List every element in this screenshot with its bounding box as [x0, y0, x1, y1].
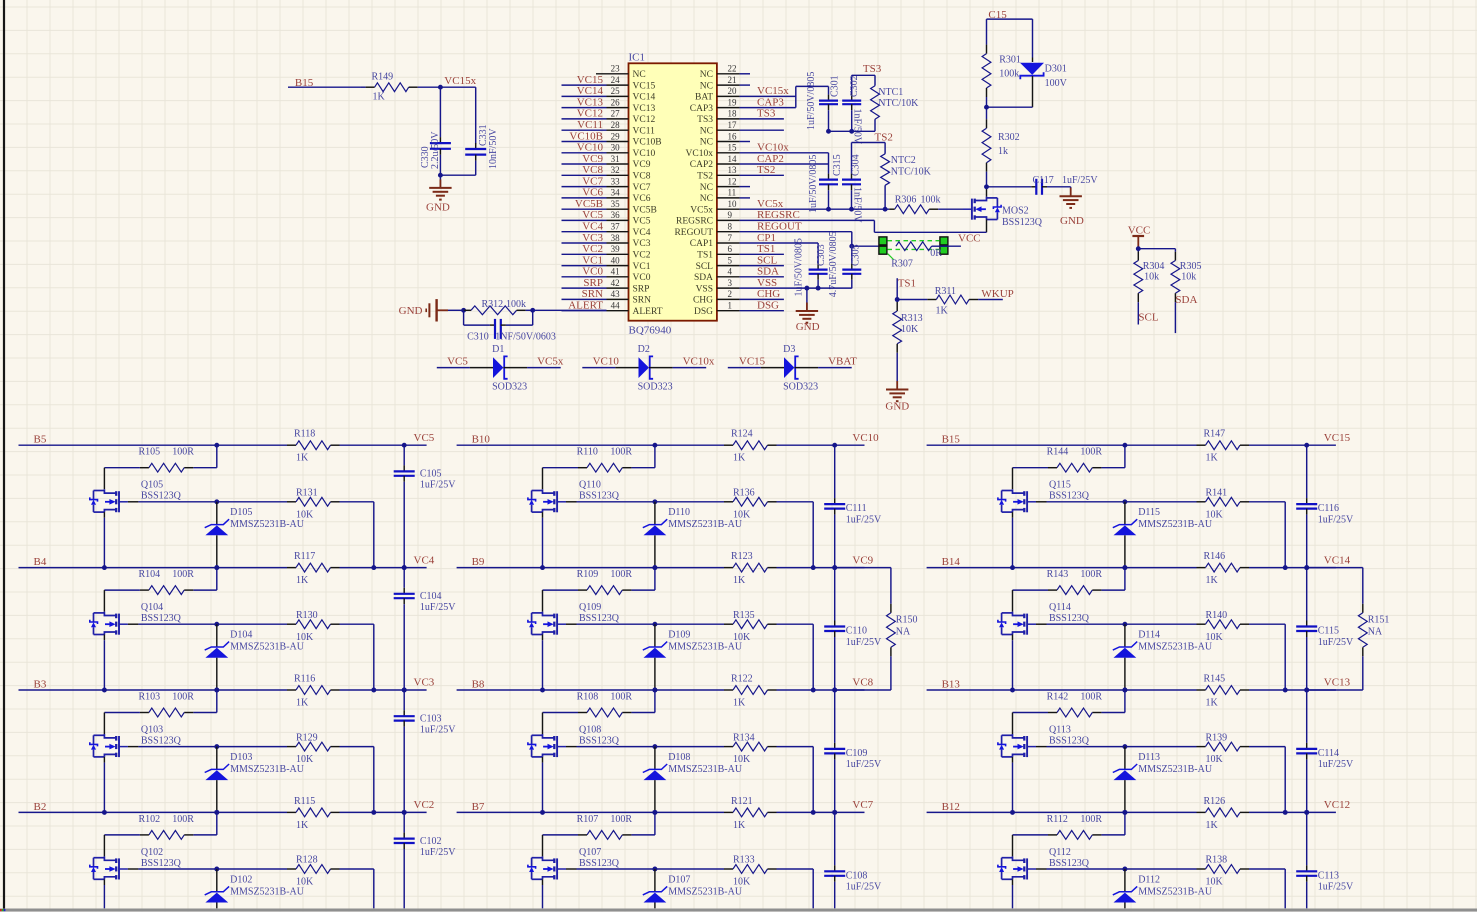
svg-text:100R: 100R — [610, 691, 632, 702]
svg-text:C104: C104 — [420, 591, 442, 602]
svg-text:R151: R151 — [1368, 615, 1390, 626]
svg-text:1K: 1K — [1206, 698, 1219, 709]
resistor R109 100R — [654, 568, 656, 591]
svg-text:R304: R304 — [1143, 261, 1165, 272]
wire drain Q107 — [542, 835, 544, 857]
IC U1 body — [629, 63, 717, 320]
svg-text:100V: 100V — [1045, 78, 1068, 89]
svg-text:26: 26 — [611, 97, 621, 107]
wire gate Q104 — [128, 623, 138, 625]
svg-text:BSS123Q: BSS123Q — [579, 613, 620, 624]
svg-text:R103: R103 — [139, 691, 161, 702]
capacitor C304 — [851, 143, 853, 174]
wire rail B13 — [927, 689, 1197, 691]
svg-text:Q102: Q102 — [141, 847, 163, 858]
svg-text:SCL: SCL — [1138, 311, 1158, 323]
svg-text:43: 43 — [611, 289, 621, 299]
transistor Q115 BSS123Q — [1013, 489, 1025, 493]
svg-text:6: 6 — [728, 244, 733, 254]
svg-text:NC: NC — [700, 138, 713, 148]
svg-text:R150: R150 — [896, 615, 918, 626]
svg-text:C109: C109 — [846, 748, 868, 759]
svg-text:C305: C305 — [851, 244, 862, 266]
wire REGOUT — [740, 231, 852, 233]
svg-text:10k: 10k — [1181, 272, 1196, 283]
ground GND4 — [806, 288, 808, 311]
IC1 pin 44 ALERT — [607, 310, 629, 312]
svg-text:VC10B: VC10B — [569, 130, 603, 142]
svg-text:B4: B4 — [34, 556, 47, 568]
zener D107 MMSZ5231B-AU — [654, 869, 656, 892]
svg-text:C115: C115 — [1318, 626, 1339, 637]
svg-text:VC8: VC8 — [852, 677, 873, 689]
wire ALERT — [533, 309, 607, 311]
svg-text:1k: 1k — [998, 146, 1008, 157]
IC1 pin 40 VC1 — [607, 265, 629, 267]
svg-text:C310: C310 — [467, 331, 489, 342]
svg-text:22: 22 — [728, 64, 737, 74]
svg-text:VC11: VC11 — [577, 119, 603, 131]
svg-text:VC2: VC2 — [414, 799, 435, 811]
wire source Q103 — [103, 757, 105, 763]
IC1 pin 35 VC5B — [607, 208, 629, 210]
svg-text:1uF/25V: 1uF/25V — [1318, 759, 1354, 770]
svg-text:VC9: VC9 — [852, 554, 873, 566]
svg-text:1uF/25V: 1uF/25V — [846, 759, 882, 770]
svg-text:B2: B2 — [34, 801, 47, 813]
IC1 pin 22 NC — [717, 73, 740, 75]
capacitor C115 1uF/25V — [1306, 568, 1308, 621]
svg-text:BSS123Q: BSS123Q — [141, 736, 182, 747]
svg-text:NC: NC — [700, 81, 713, 91]
svg-text:1uF/50V/0805: 1uF/50V/0805 — [806, 72, 817, 130]
thermistor NTC1 — [871, 86, 880, 120]
svg-text:Q105: Q105 — [141, 480, 163, 491]
IC1 pin 3 VSS — [717, 287, 740, 289]
svg-text:VC2: VC2 — [582, 243, 603, 255]
wire rail B5 — [19, 444, 288, 446]
svg-text:BSS123Q: BSS123Q — [1049, 858, 1090, 869]
svg-text:1K: 1K — [1206, 820, 1219, 831]
svg-text:R130: R130 — [296, 610, 318, 621]
wire gate Q102 — [128, 868, 138, 870]
IC1 pin 7 CAP1 — [717, 242, 740, 244]
IC1 pin 21 NC — [717, 84, 740, 86]
wire rail B14 — [927, 567, 1197, 569]
svg-text:BQ76940: BQ76940 — [629, 325, 672, 337]
resistor R150 NA — [835, 567, 891, 569]
IC1 pin 18 TS3 — [717, 118, 740, 120]
resistor R149 — [361, 86, 366, 88]
svg-text:D112: D112 — [1138, 874, 1160, 885]
IC1 pin 5 SCL — [717, 265, 740, 267]
IC1 pin 28 VC11 — [607, 129, 629, 131]
transistor Q110 BSS123Q — [543, 489, 555, 493]
transistor Q113 BSS123Q — [1013, 734, 1025, 738]
svg-text:C303: C303 — [816, 244, 827, 266]
svg-text:31: 31 — [611, 154, 620, 164]
svg-text:VC4: VC4 — [633, 228, 651, 238]
svg-text:VC5B: VC5B — [633, 205, 657, 215]
svg-text:C302: C302 — [849, 75, 860, 97]
svg-text:R112: R112 — [1047, 814, 1068, 825]
svg-text:1K: 1K — [733, 820, 746, 831]
IC1 pin 39 VC2 — [607, 253, 629, 255]
svg-text:VC15x: VC15x — [757, 85, 789, 97]
svg-text:1uF/25V: 1uF/25V — [420, 480, 456, 491]
svg-text:1nF/50V: 1nF/50V — [852, 109, 863, 145]
svg-text:R122: R122 — [731, 674, 753, 685]
svg-text:10nF/50V: 10nF/50V — [488, 128, 499, 169]
svg-text:SCL: SCL — [696, 262, 714, 272]
svg-text:Q110: Q110 — [579, 480, 601, 491]
svg-text:NTC/10K: NTC/10K — [878, 98, 919, 109]
IC1 pin 8 REGOUT — [717, 231, 740, 233]
svg-text:NC: NC — [700, 126, 713, 136]
svg-text:8: 8 — [728, 222, 733, 232]
svg-text:TS2: TS2 — [697, 172, 713, 182]
ground GND5 — [896, 381, 898, 390]
svg-text:1: 1 — [728, 301, 733, 311]
IC1 pin 20 BAT — [717, 95, 740, 97]
svg-text:MMSZ5231B-AU: MMSZ5231B-AU — [668, 764, 743, 775]
svg-text:B7: B7 — [472, 801, 485, 813]
IC1 pin 30 VC10 — [607, 152, 629, 154]
svg-text:TS1: TS1 — [697, 251, 713, 261]
svg-text:BSS123Q: BSS123Q — [579, 736, 620, 747]
svg-text:19: 19 — [728, 97, 738, 107]
svg-text:CAP3: CAP3 — [690, 104, 713, 114]
svg-text:R139: R139 — [1206, 732, 1228, 743]
svg-text:4: 4 — [728, 267, 733, 277]
capacitor C103 1uF/25V — [403, 690, 405, 710]
svg-text:VC9: VC9 — [582, 153, 603, 165]
svg-text:B5: B5 — [34, 434, 47, 446]
svg-text:20: 20 — [728, 86, 738, 96]
svg-text:SDA: SDA — [1175, 294, 1197, 306]
resistor R108 100R — [654, 690, 656, 713]
svg-text:R129: R129 — [296, 732, 318, 743]
svg-text:23: 23 — [611, 64, 621, 74]
capacitor C117 — [987, 186, 1032, 188]
svg-text:GND: GND — [1060, 215, 1084, 227]
svg-text:GND: GND — [885, 401, 909, 413]
IC1 pin 36 VC5 — [607, 219, 629, 221]
svg-text:BSS123Q: BSS123Q — [579, 491, 620, 502]
svg-text:1uF/25V: 1uF/25V — [1318, 637, 1354, 648]
svg-text:35: 35 — [611, 199, 621, 209]
svg-text:100R: 100R — [172, 691, 194, 702]
svg-text:VC10x: VC10x — [757, 142, 789, 154]
svg-text:C113: C113 — [1318, 870, 1339, 881]
svg-text:1K: 1K — [296, 698, 309, 709]
capacitor C303 — [817, 263, 819, 265]
svg-text:C114: C114 — [1318, 748, 1339, 759]
wire gate Q108 — [566, 746, 577, 748]
svg-text:GND: GND — [399, 305, 423, 317]
svg-text:VC2: VC2 — [633, 251, 651, 261]
svg-text:VCC: VCC — [1128, 225, 1151, 237]
resistor R305 — [1174, 252, 1176, 261]
svg-text:VC10x: VC10x — [686, 149, 714, 159]
svg-text:B14: B14 — [942, 556, 961, 568]
wire rail B3 — [19, 689, 288, 691]
IC1 pin 16 NC — [717, 141, 740, 143]
svg-text:100R: 100R — [1080, 569, 1102, 580]
svg-text:C301: C301 — [830, 75, 841, 97]
svg-text:BAT: BAT — [695, 93, 713, 103]
svg-text:VC3: VC3 — [582, 232, 603, 244]
IC1 pin 4 SDA — [717, 276, 740, 278]
resistor R105 100R — [216, 445, 218, 468]
svg-text:C110: C110 — [846, 626, 867, 637]
svg-text:TS1: TS1 — [757, 243, 775, 255]
svg-text:NC: NC — [700, 194, 713, 204]
wire drain Q114 — [1012, 590, 1014, 612]
svg-text:VCC: VCC — [958, 233, 981, 245]
svg-text:VC4: VC4 — [414, 554, 435, 566]
ground GND3 — [1070, 187, 1072, 196]
resistor R306 — [889, 208, 895, 210]
svg-text:GND: GND — [796, 321, 820, 333]
svg-text:VC3: VC3 — [414, 677, 435, 689]
svg-text:33: 33 — [611, 176, 621, 186]
IC1 pin 11 NC — [717, 197, 740, 199]
svg-text:IC1: IC1 — [629, 52, 646, 64]
IC1 pin 31 VC9 — [607, 163, 629, 165]
svg-text:SRP: SRP — [633, 284, 650, 294]
svg-text:DSG: DSG — [694, 307, 713, 317]
wire rail B9 — [457, 567, 724, 569]
wire CP1 — [740, 242, 819, 244]
svg-text:VC5x: VC5x — [757, 198, 784, 210]
wire VC10x-CAP2 — [740, 152, 829, 154]
svg-text:R108: R108 — [577, 691, 599, 702]
svg-text:1uF/25V: 1uF/25V — [420, 725, 456, 736]
transistor Q112 BSS123Q — [1013, 856, 1025, 860]
wire source Q102 — [103, 879, 105, 885]
zener D115 MMSZ5231B-AU — [1124, 502, 1126, 525]
capacitor C108 1uF/25V — [834, 812, 836, 865]
wire rail B12 — [927, 811, 1197, 813]
wire drain Q110 — [542, 468, 544, 490]
junction A1 — [461, 308, 466, 313]
svg-text:R118: R118 — [294, 429, 315, 440]
svg-text:D3: D3 — [783, 344, 795, 355]
wire gate Q107 — [566, 868, 577, 870]
svg-text:R311: R311 — [935, 286, 956, 297]
svg-text:VC10B: VC10B — [633, 138, 662, 148]
svg-text:Q114: Q114 — [1049, 602, 1071, 613]
wire drain Q104 — [103, 590, 105, 612]
svg-text:VC5: VC5 — [633, 217, 651, 227]
svg-text:R312: R312 — [482, 299, 504, 310]
svg-text:5: 5 — [728, 255, 733, 265]
svg-text:VC11: VC11 — [633, 126, 656, 136]
capacitor C302 — [851, 75, 853, 94]
svg-text:R107: R107 — [577, 814, 599, 825]
svg-text:VC0: VC0 — [633, 273, 651, 283]
svg-text:MMSZ5231B-AU: MMSZ5231B-AU — [1138, 642, 1213, 653]
svg-text:VC4: VC4 — [582, 221, 603, 233]
wire rail B4 — [19, 567, 288, 569]
svg-text:C103: C103 — [420, 714, 442, 725]
svg-text:R124: R124 — [731, 429, 753, 440]
IC1 pin 33 VC7 — [607, 186, 629, 188]
wire source Q108 — [542, 757, 544, 763]
svg-text:R105: R105 — [139, 447, 161, 458]
capacitor C110 1uF/25V — [834, 568, 836, 621]
svg-text:R126: R126 — [1204, 796, 1226, 807]
svg-text:VC7: VC7 — [633, 183, 651, 193]
svg-text:44: 44 — [611, 301, 621, 311]
capacitor C102 1uF/25V — [403, 812, 405, 832]
svg-text:VC10: VC10 — [633, 149, 656, 159]
resistor R102 100R — [216, 812, 218, 835]
svg-text:VC8: VC8 — [582, 164, 603, 176]
svg-text:C105: C105 — [420, 469, 442, 480]
capacitor C116 1uF/25V — [1306, 445, 1308, 498]
wire source Q107 — [542, 879, 544, 885]
capacitor C109 1uF/25V — [834, 690, 836, 743]
wire D301 join — [987, 106, 1033, 108]
svg-text:VC5x: VC5x — [537, 356, 564, 368]
svg-text:D2: D2 — [638, 344, 650, 355]
svg-text:R121: R121 — [731, 796, 753, 807]
svg-text:SDA: SDA — [757, 266, 779, 278]
zener D112 MMSZ5231B-AU — [1124, 869, 1126, 892]
IC1 pin 13 TS2 — [717, 174, 740, 176]
junction C117 tap — [984, 184, 989, 189]
svg-text:TS3: TS3 — [863, 63, 882, 75]
svg-text:Q109: Q109 — [579, 602, 601, 613]
svg-text:VC14: VC14 — [577, 85, 604, 97]
svg-text:MMSZ5231B-AU: MMSZ5231B-AU — [230, 886, 305, 897]
svg-text:BSS123Q: BSS123Q — [1049, 491, 1090, 502]
IC1 pin 43 SRN — [607, 298, 629, 300]
svg-text:NA: NA — [1368, 627, 1383, 638]
wire rail B7 — [457, 811, 724, 813]
resistor R107 100R — [654, 812, 656, 835]
resistor R103 100R — [216, 690, 218, 713]
svg-text:VC7: VC7 — [852, 799, 873, 811]
svg-text:NTC2: NTC2 — [891, 155, 916, 166]
svg-text:VC15: VC15 — [633, 81, 656, 91]
wire cap join — [440, 174, 475, 176]
wire rail B2 — [19, 811, 288, 813]
svg-text:37: 37 — [611, 222, 621, 232]
svg-text:CHG: CHG — [757, 288, 780, 300]
svg-text:R135: R135 — [733, 610, 755, 621]
svg-text:100R: 100R — [1080, 447, 1102, 458]
wire gate Q103 — [128, 746, 138, 748]
wire rail B10 — [457, 444, 724, 446]
svg-text:VC15x: VC15x — [444, 75, 476, 87]
IC1 pin 38 VC3 — [607, 242, 629, 244]
transistor MOS2 — [975, 197, 987, 201]
wire C15 loop — [987, 18, 1033, 20]
svg-text:GND: GND — [426, 202, 450, 214]
svg-text:1NF/50V/0603: 1NF/50V/0603 — [495, 331, 556, 342]
svg-text:27: 27 — [611, 109, 621, 119]
svg-text:B13: B13 — [942, 679, 961, 691]
svg-text:MMSZ5231B-AU: MMSZ5231B-AU — [230, 519, 305, 530]
svg-text:DSG: DSG — [757, 300, 779, 312]
svg-text:2: 2 — [728, 289, 733, 299]
svg-text:C315: C315 — [832, 154, 843, 176]
svg-text:1K: 1K — [296, 575, 309, 586]
svg-text:CAP1: CAP1 — [690, 239, 713, 249]
svg-text:Q103: Q103 — [141, 725, 163, 736]
svg-text:R313: R313 — [901, 313, 923, 324]
wire source Q113 — [1012, 757, 1014, 763]
svg-text:CAP3: CAP3 — [757, 96, 784, 108]
svg-text:D115: D115 — [1138, 507, 1160, 518]
wire drain Q115 — [1012, 468, 1014, 490]
svg-text:40: 40 — [611, 255, 621, 265]
wire drain Q103 — [103, 713, 105, 735]
svg-text:D114: D114 — [1138, 630, 1160, 641]
transistor Q105 BSS123Q — [104, 489, 116, 493]
svg-text:100R: 100R — [1080, 691, 1102, 702]
transistor Q108 BSS123Q — [543, 734, 555, 738]
svg-text:D301: D301 — [1045, 64, 1067, 75]
svg-text:VC5B: VC5B — [575, 198, 603, 210]
svg-text:1uF/25V: 1uF/25V — [420, 602, 456, 613]
svg-text:15: 15 — [728, 143, 738, 153]
svg-text:10K: 10K — [901, 324, 919, 335]
resistor R301 — [986, 45, 988, 54]
svg-text:VC14: VC14 — [633, 93, 656, 103]
capacitor C301 — [828, 94, 830, 96]
wire drain Q113 — [1012, 713, 1014, 735]
svg-text:Q112: Q112 — [1049, 847, 1071, 858]
svg-text:1nF/50V: 1nF/50V — [851, 187, 862, 223]
svg-text:R301: R301 — [999, 55, 1021, 66]
IC1 pin 25 VC14 — [607, 95, 629, 97]
svg-text:WKUP: WKUP — [981, 288, 1013, 300]
svg-text:C116: C116 — [1318, 503, 1339, 514]
svg-text:21: 21 — [728, 75, 737, 85]
capacitor C305 — [851, 246, 853, 263]
svg-text:VC5x: VC5x — [690, 205, 713, 215]
svg-text:NC: NC — [700, 183, 713, 193]
svg-text:100k: 100k — [999, 69, 1019, 80]
svg-text:VC10x: VC10x — [683, 356, 715, 368]
transistor Q103 BSS123Q — [104, 734, 116, 738]
svg-text:Q115: Q115 — [1049, 480, 1071, 491]
wire gate Q110 — [566, 501, 577, 503]
svg-text:VC13: VC13 — [577, 96, 604, 108]
svg-text:14: 14 — [728, 154, 738, 164]
svg-text:39: 39 — [611, 244, 621, 254]
svg-text:25: 25 — [611, 86, 621, 96]
svg-text:C102: C102 — [420, 836, 442, 847]
wire source Q110 — [542, 512, 544, 518]
svg-text:Q104: Q104 — [141, 602, 163, 613]
svg-text:100k: 100k — [921, 195, 941, 206]
svg-text:24: 24 — [611, 75, 621, 85]
IC1 pin 14 CAP2 — [717, 163, 740, 165]
svg-text:C117: C117 — [1033, 175, 1054, 186]
svg-text:100R: 100R — [610, 814, 632, 825]
svg-text:18: 18 — [728, 109, 738, 119]
svg-text:R302: R302 — [998, 132, 1020, 143]
resistor R112 100R — [1124, 812, 1126, 835]
capacitor C111 1uF/25V — [834, 445, 836, 498]
svg-text:VC15: VC15 — [739, 356, 766, 368]
svg-text:1K: 1K — [296, 820, 309, 831]
